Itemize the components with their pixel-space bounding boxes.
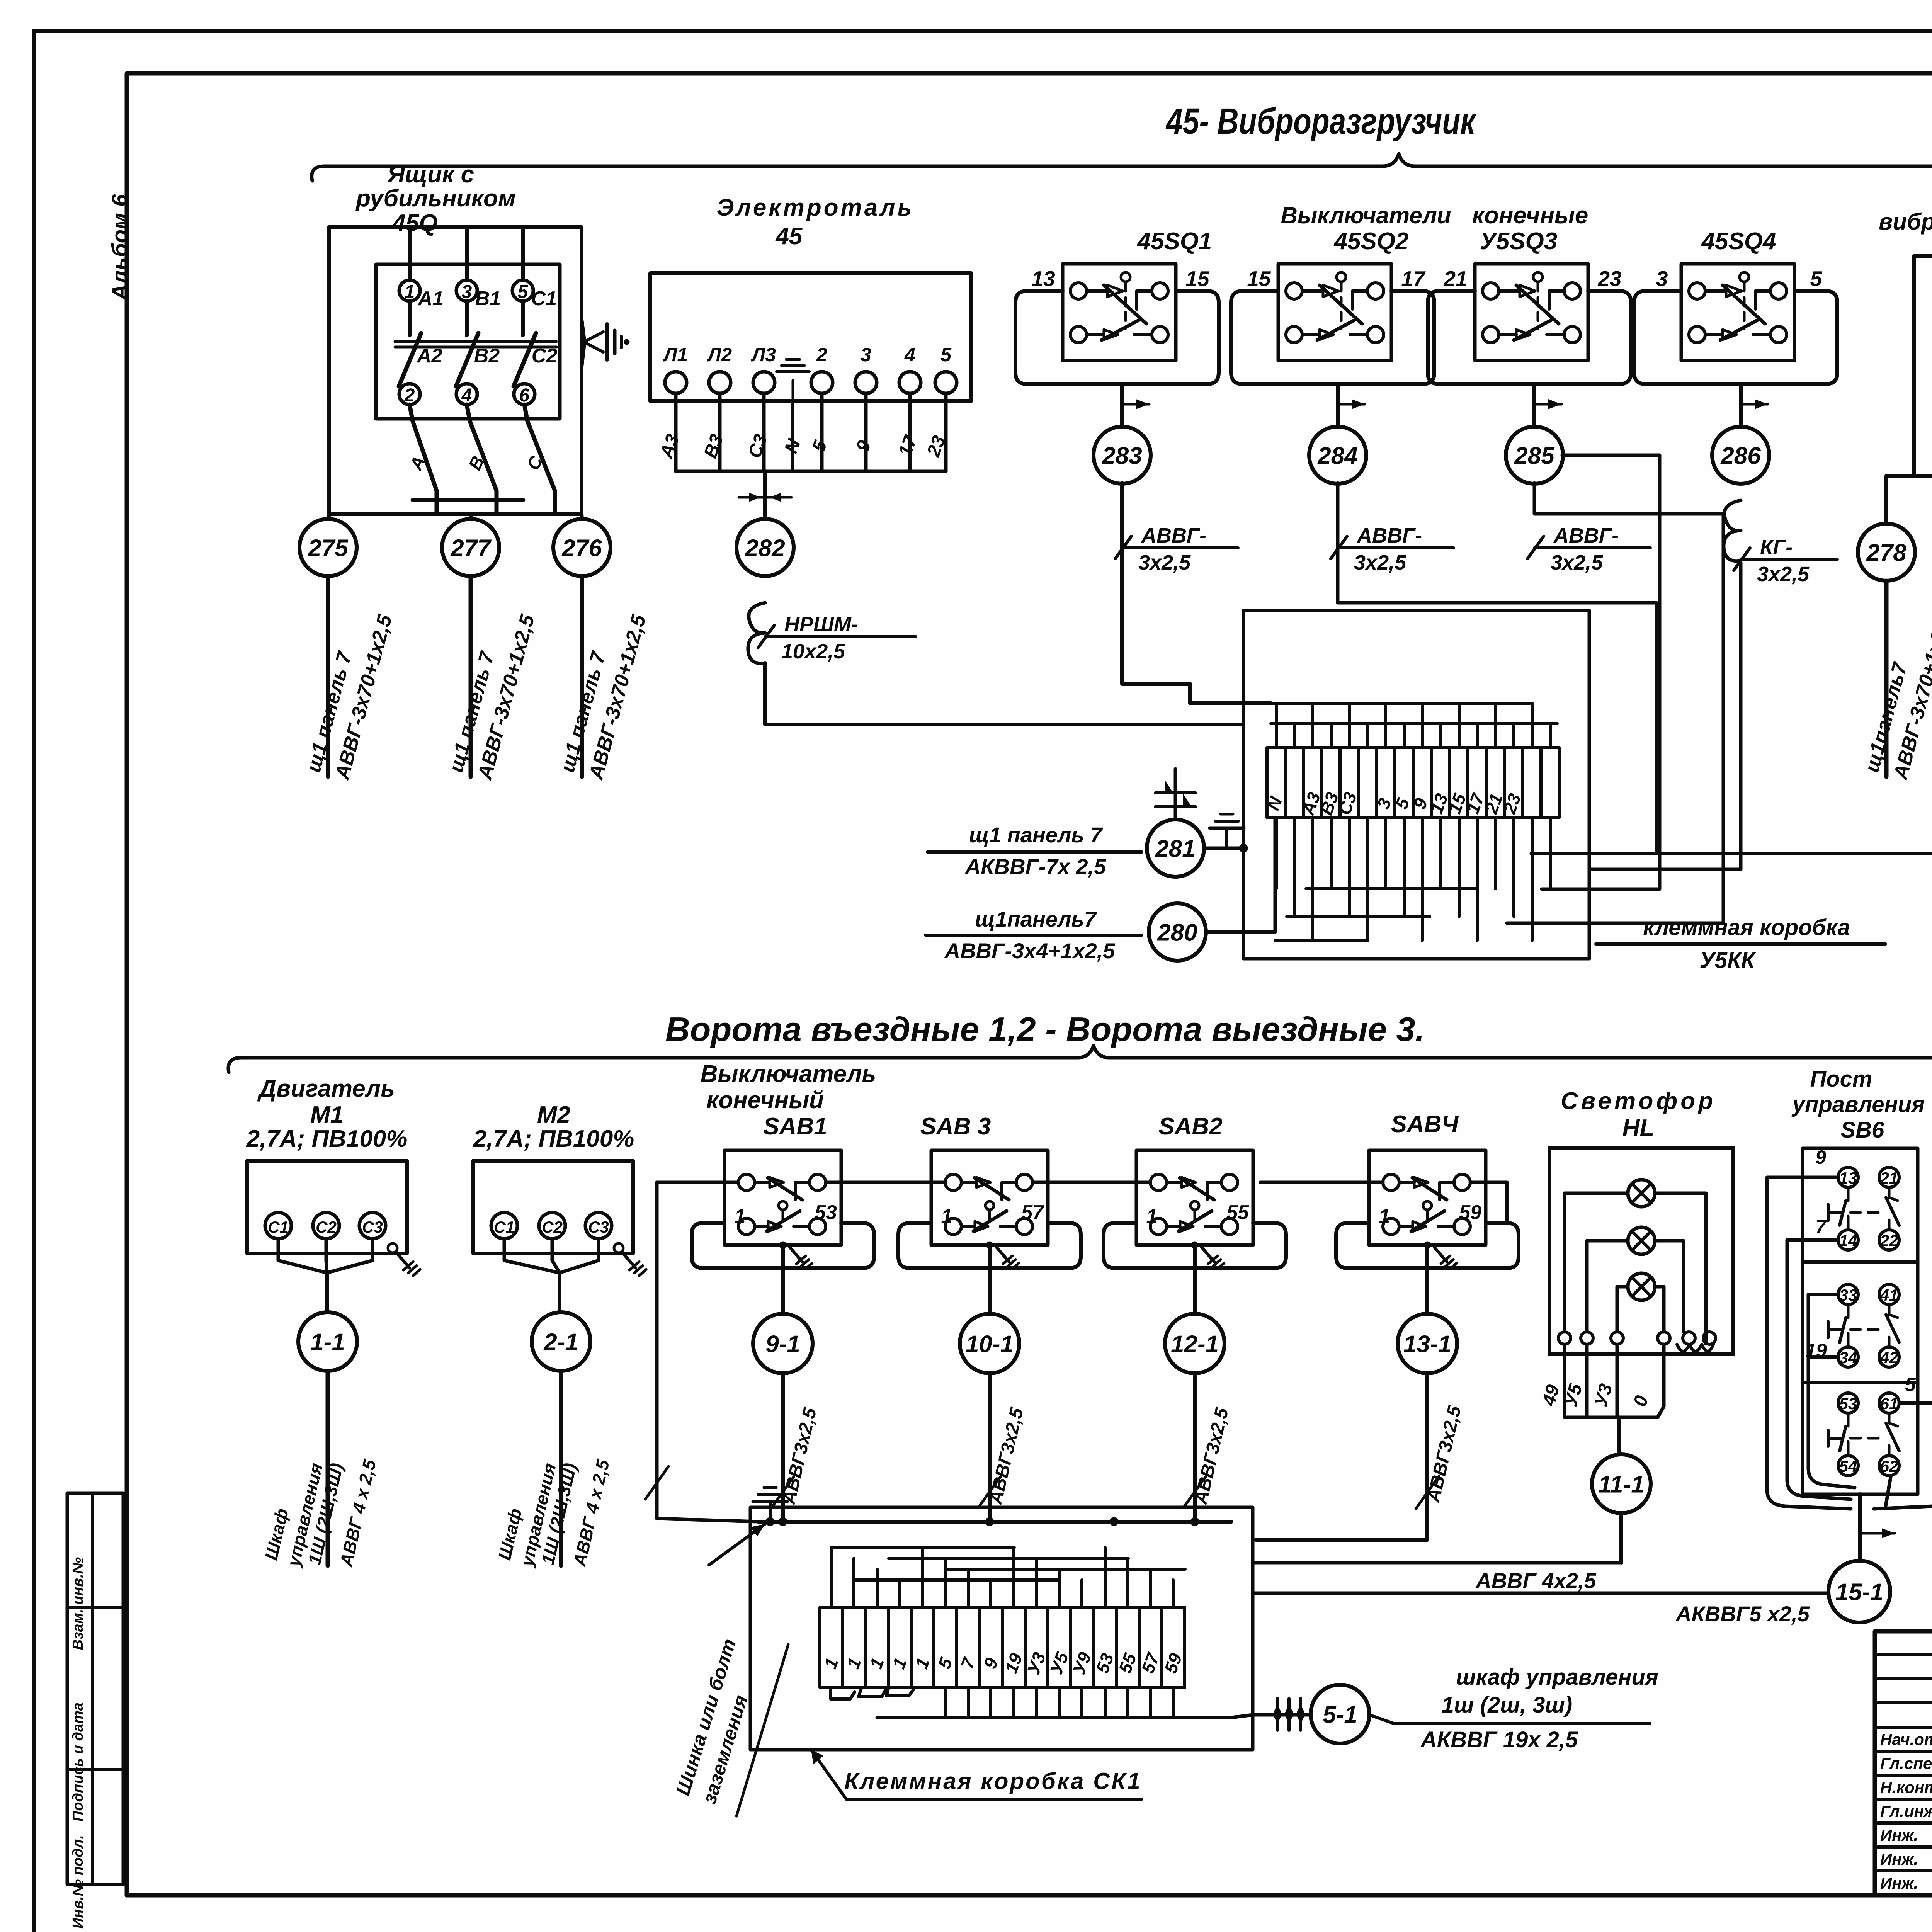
- svg-text:С1: С1: [268, 1218, 289, 1236]
- svg-text:13: 13: [1031, 267, 1055, 291]
- svg-text:9-1: 9-1: [765, 1331, 800, 1357]
- svg-text:1-1: 1-1: [310, 1329, 345, 1355]
- svg-text:щ1панель7: щ1панель7: [975, 907, 1097, 931]
- svg-text:22: 22: [1880, 1231, 1898, 1250]
- svg-text:В1: В1: [475, 287, 501, 310]
- svg-text:АВВГ-: АВВГ-: [1356, 524, 1422, 547]
- svg-text:45: 45: [775, 223, 803, 250]
- svg-text:34: 34: [1839, 1349, 1857, 1367]
- svg-text:45SQ1: 45SQ1: [1136, 228, 1212, 255]
- svg-text:Нач.отд.: Нач.отд.: [1880, 1730, 1932, 1748]
- svg-text:278: 278: [1866, 539, 1906, 566]
- svg-text:У5SQ3: У5SQ3: [1480, 228, 1558, 255]
- svg-text:5-1: 5-1: [1323, 1701, 1357, 1728]
- svg-text:15: 15: [1185, 267, 1210, 291]
- svg-text:АВВГ 4х2,5: АВВГ 4х2,5: [1475, 1568, 1596, 1593]
- svg-text:42: 42: [1880, 1349, 1898, 1367]
- svg-text:Н.контр: Н.контр: [1880, 1778, 1932, 1796]
- svg-text:12-1: 12-1: [1171, 1331, 1219, 1357]
- svg-text:277: 277: [450, 535, 492, 561]
- svg-text:283: 283: [1102, 442, 1142, 469]
- svg-text:АКВВГ5 х2,5: АКВВГ5 х2,5: [1675, 1602, 1810, 1626]
- svg-text:У5КК: У5КК: [1700, 948, 1756, 973]
- svg-text:АКВВГ-7х 2,5: АКВВГ-7х 2,5: [964, 854, 1106, 879]
- svg-text:4: 4: [904, 344, 915, 366]
- svg-text:SB6: SB6: [1841, 1117, 1885, 1143]
- svg-text:С2: С2: [542, 1218, 563, 1236]
- svg-text:285: 285: [1514, 442, 1555, 469]
- svg-text:Двигатель: Двигатель: [257, 1075, 395, 1102]
- svg-text:15-1: 15-1: [1835, 1579, 1883, 1605]
- svg-text:С3: С3: [362, 1218, 383, 1236]
- svg-text:Инж.: Инж.: [1880, 1826, 1918, 1844]
- svg-text:шкаф управления: шкаф управления: [1456, 1665, 1658, 1690]
- svg-text:А1: А1: [417, 287, 444, 310]
- svg-text:С2: С2: [316, 1218, 337, 1236]
- svg-text:управления: управления: [1791, 1092, 1925, 1117]
- svg-text:276: 276: [561, 535, 602, 561]
- svg-text:конечные: конечные: [1472, 202, 1588, 229]
- svg-text:1: 1: [735, 1205, 746, 1228]
- svg-text:Ящик с: Ящик с: [387, 161, 474, 188]
- svg-text:10-1: 10-1: [966, 1331, 1014, 1357]
- svg-text:21: 21: [1880, 1169, 1898, 1187]
- svg-text:КГ-: КГ-: [1760, 536, 1793, 559]
- svg-text:рубильником: рубильником: [355, 185, 516, 212]
- svg-text:SAB1: SAB1: [763, 1113, 827, 1140]
- svg-text:21: 21: [1443, 267, 1467, 291]
- svg-text:Л3: Л3: [751, 344, 776, 366]
- svg-text:14: 14: [1839, 1231, 1857, 1250]
- svg-text:286: 286: [1720, 442, 1761, 469]
- svg-text:284: 284: [1317, 442, 1357, 469]
- svg-text:280: 280: [1157, 919, 1197, 946]
- svg-text:45- Виброразгрузчик: 45- Виброразгрузчик: [1165, 101, 1476, 142]
- svg-text:54: 54: [1839, 1457, 1857, 1475]
- svg-text:3х2,5: 3х2,5: [1551, 551, 1603, 574]
- svg-text:3х2,5: 3х2,5: [1757, 563, 1810, 586]
- svg-text:7: 7: [1815, 1216, 1827, 1238]
- svg-text:конечный: конечный: [706, 1087, 824, 1114]
- svg-text:5: 5: [940, 344, 952, 366]
- svg-text:53: 53: [815, 1201, 837, 1224]
- svg-text:282: 282: [745, 535, 785, 561]
- svg-text:5: 5: [1905, 1374, 1916, 1395]
- svg-text:2: 2: [816, 344, 827, 366]
- svg-text:Инж.: Инж.: [1880, 1874, 1918, 1892]
- svg-text:2,7А; ПВ100%: 2,7А; ПВ100%: [473, 1126, 634, 1152]
- svg-text:55: 55: [1226, 1201, 1249, 1224]
- svg-text:М2: М2: [537, 1102, 570, 1128]
- svg-text:45Q: 45Q: [391, 210, 437, 236]
- svg-text:АВВГ-: АВВГ-: [1553, 524, 1619, 547]
- svg-text:281: 281: [1155, 835, 1195, 862]
- svg-text:2,7А; ПВ100%: 2,7А; ПВ100%: [246, 1126, 408, 1152]
- svg-text:15: 15: [1247, 267, 1271, 291]
- svg-text:23: 23: [1597, 267, 1621, 291]
- svg-text:53: 53: [1839, 1395, 1857, 1413]
- svg-text:9: 9: [1815, 1146, 1826, 1168]
- svg-text:Электроталь: Электроталь: [717, 194, 914, 221]
- svg-text:Гл.спец: Гл.спец: [1880, 1754, 1932, 1772]
- svg-text:275: 275: [308, 535, 349, 561]
- svg-text:SAB 3: SAB 3: [920, 1113, 991, 1140]
- svg-text:41: 41: [1880, 1286, 1898, 1304]
- svg-text:Выключатель: Выключатель: [701, 1061, 876, 1087]
- svg-text:АВВГ-: АВВГ-: [1141, 524, 1206, 547]
- svg-text:Выключатели: Выключатели: [1281, 202, 1451, 228]
- svg-text:Л2: Л2: [707, 344, 732, 366]
- svg-text:1: 1: [1146, 1205, 1158, 1228]
- svg-text:Альбом 6: Альбом 6: [107, 194, 133, 301]
- svg-text:33: 33: [1839, 1286, 1857, 1304]
- svg-text:1: 1: [1379, 1205, 1390, 1228]
- svg-text:виброразгрузчиком45П: виброразгрузчиком45П: [1879, 209, 1932, 235]
- svg-text:45SQ4: 45SQ4: [1701, 228, 1776, 255]
- svg-text:С3: С3: [588, 1218, 609, 1236]
- svg-text:Ворота въездные 1,2 - Ворота: Ворота въездные 1,2 - Ворота выездные 3.: [665, 1010, 1425, 1048]
- svg-text:59: 59: [1459, 1201, 1481, 1224]
- svg-text:Клеммная коробка СК1: Клеммная коробка СК1: [844, 1768, 1141, 1794]
- svg-text:Л1: Л1: [663, 344, 688, 366]
- svg-text:АВВГ-3х4+1х2,5: АВВГ-3х4+1х2,5: [944, 939, 1115, 963]
- svg-text:М1: М1: [310, 1102, 344, 1128]
- svg-text:Пост: Пост: [1810, 1066, 1872, 1092]
- svg-text:61: 61: [1880, 1395, 1898, 1413]
- svg-text:10х2,5: 10х2,5: [781, 640, 845, 663]
- svg-text:17: 17: [1401, 267, 1426, 291]
- svg-text:5: 5: [1810, 267, 1823, 291]
- svg-text:клеммная коробка: клеммная коробка: [1643, 915, 1850, 940]
- svg-text:1: 1: [941, 1205, 952, 1228]
- svg-text:3х2,5: 3х2,5: [1138, 551, 1191, 574]
- svg-text:1ш (2ш, 3ш): 1ш (2ш, 3ш): [1442, 1692, 1572, 1718]
- svg-text:Инж.: Инж.: [1880, 1850, 1918, 1868]
- svg-text:SAB2: SAB2: [1158, 1113, 1222, 1140]
- svg-text:SABЧ: SABЧ: [1391, 1111, 1459, 1138]
- svg-text:щ1 панель 7: щ1 панель 7: [969, 823, 1104, 847]
- svg-text:HL: HL: [1622, 1115, 1655, 1141]
- svg-text:Гл.инж.пр.: Гл.инж.пр.: [1880, 1802, 1932, 1820]
- svg-text:3х2,5: 3х2,5: [1354, 551, 1406, 574]
- svg-text:3: 3: [861, 344, 871, 366]
- svg-text:С1: С1: [531, 287, 557, 310]
- svg-text:62: 62: [1880, 1457, 1898, 1475]
- svg-text:45SQ2: 45SQ2: [1333, 228, 1408, 255]
- svg-text:С1: С1: [494, 1218, 515, 1236]
- svg-text:11-1: 11-1: [1598, 1471, 1645, 1498]
- svg-text:2-1: 2-1: [543, 1329, 578, 1355]
- svg-text:НРШМ-: НРШМ-: [784, 613, 858, 636]
- svg-text:АКВВГ 19х 2,5: АКВВГ 19х 2,5: [1420, 1727, 1578, 1752]
- svg-text:Светофор: Светофор: [1561, 1088, 1716, 1114]
- svg-text:Инв.№ подл.: Инв.№ подл.: [70, 1835, 86, 1929]
- svg-text:3: 3: [1656, 267, 1668, 291]
- svg-text:13: 13: [1839, 1169, 1857, 1187]
- svg-text:57: 57: [1021, 1201, 1044, 1224]
- svg-text:Взам. инв.№: Взам. инв.№: [70, 1557, 86, 1650]
- svg-text:Подпись и дата: Подпись и дата: [70, 1702, 86, 1821]
- svg-text:13-1: 13-1: [1403, 1331, 1451, 1357]
